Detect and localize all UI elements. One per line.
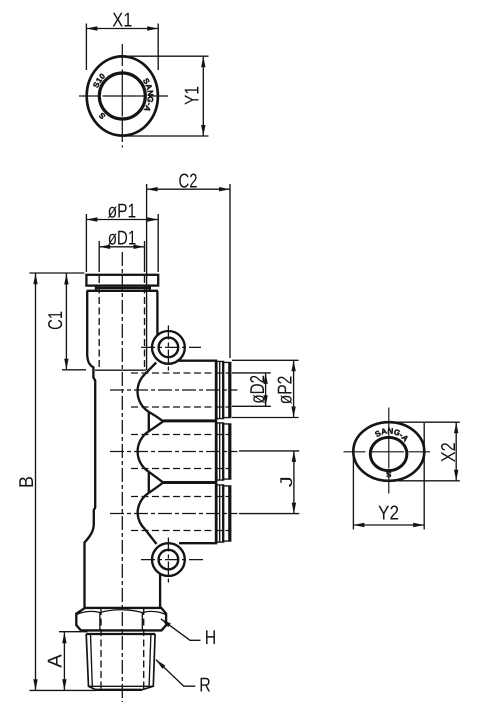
top view inner bore circle xyxy=(99,73,145,119)
main vertical center line xyxy=(121,252,123,702)
body right edge lower xyxy=(159,574,161,607)
bottom mounting hole inner circle xyxy=(159,550,179,570)
port 1 center line xyxy=(110,389,238,391)
port 2 boss arc xyxy=(138,431,149,472)
collet cap neck band xyxy=(96,286,150,290)
top mounting hole inner circle xyxy=(159,338,179,358)
svg-text:A: A xyxy=(45,654,67,668)
port 3 collet rings xyxy=(217,485,231,542)
svg-text:øP2: øP2 xyxy=(275,376,297,405)
body right edge upper xyxy=(156,291,158,335)
top view center lines xyxy=(121,44,123,148)
cusp between port2 and port3 xyxy=(149,472,163,493)
dimension C1 line xyxy=(65,274,67,370)
port2/port3 boundary edge xyxy=(163,481,217,484)
dimension J line xyxy=(293,451,295,514)
dimension øD2 line xyxy=(265,373,267,406)
body left profile xyxy=(85,291,96,608)
collet cap flange xyxy=(86,275,158,286)
bottom mounting hole center lines xyxy=(167,538,169,584)
port 3 hidden bore lines xyxy=(131,497,231,531)
stud hidden bore lines xyxy=(101,608,144,690)
top view outer ring xyxy=(87,56,158,135)
top mounting boss outer circle xyxy=(152,331,185,364)
thread stud outer profile xyxy=(86,634,155,690)
dimension X2 extension lines xyxy=(390,422,460,481)
port 1 collet rings xyxy=(217,361,231,418)
svg-text:S: S xyxy=(385,469,391,478)
thread root lines xyxy=(91,634,151,686)
port1/port2 boundary edge xyxy=(163,419,217,422)
svg-text:C2: C2 xyxy=(179,170,198,192)
dimension øP1 line xyxy=(86,219,158,221)
port 2 right edge xyxy=(215,422,218,482)
leader H arrow xyxy=(161,619,171,627)
dimension C2 extension lines xyxy=(147,184,230,370)
body top edge xyxy=(87,290,158,292)
thread chamfer line xyxy=(89,685,154,687)
dimension C1 bottom tick xyxy=(62,369,86,371)
dimension øP2 extension lines xyxy=(232,360,299,417)
leader R line xyxy=(156,660,195,687)
svg-text:J: J xyxy=(277,476,296,487)
dimension A line xyxy=(63,632,65,690)
svg-text:øD1: øD1 xyxy=(108,228,137,250)
dimension Y2 extension lines xyxy=(353,423,424,530)
dimension Y2 line xyxy=(353,524,424,526)
port 2 hidden bore lines xyxy=(131,435,231,469)
dimension øD1 extension lines xyxy=(99,241,144,272)
port 2 collet rings xyxy=(217,423,231,480)
svg-text:B: B xyxy=(16,476,38,488)
port 3 boss arc xyxy=(138,493,149,529)
port 3 center line xyxy=(110,513,238,515)
side view outer ellipse xyxy=(353,422,424,481)
internal bore shoulder xyxy=(95,369,146,371)
transition diagonal from top boss xyxy=(145,363,156,375)
thread stud bottom edge xyxy=(96,689,142,691)
svg-text:X1: X1 xyxy=(112,10,132,32)
cusp between port1 and port2 xyxy=(149,412,163,431)
port 1 hidden bore lines xyxy=(131,373,231,407)
dimension X1 extension lines xyxy=(86,24,158,71)
thread stud top edge xyxy=(86,633,155,635)
leader R arrow xyxy=(156,660,166,669)
svg-text:Y1: Y1 xyxy=(182,86,204,105)
dimension øP1 extension lines xyxy=(86,214,158,272)
port 2 center line xyxy=(110,451,238,453)
dimension Y1 line xyxy=(202,56,204,136)
dimension J extension lines xyxy=(239,451,299,514)
svg-text:SANG-A: SANG-A xyxy=(141,77,155,114)
side view center lines xyxy=(388,408,390,498)
internal bore dashed lines xyxy=(99,276,144,370)
svg-text:Y2: Y2 xyxy=(378,503,399,525)
port 1 boss arc xyxy=(138,374,149,412)
shared top extension line (B / C1) xyxy=(30,272,85,274)
port 1 right edge xyxy=(215,361,218,420)
bottom mounting boss outer circle xyxy=(152,543,185,576)
dimension A top extension xyxy=(59,631,88,633)
dimension X2 line xyxy=(455,422,457,481)
top mounting hole center lines xyxy=(167,326,169,372)
port 1 top edge xyxy=(177,360,217,362)
dimension C2 line xyxy=(147,188,230,190)
port 3 right edge xyxy=(215,483,218,543)
side view inner bore xyxy=(370,437,407,470)
svg-text:øP1: øP1 xyxy=(108,200,137,222)
dimension øD1 line xyxy=(99,246,144,248)
dimension Y1 extension lines xyxy=(124,56,209,136)
svg-text:H: H xyxy=(205,627,217,649)
transition diagonal to bottom boss xyxy=(145,529,157,544)
port 3 bottom edge xyxy=(179,542,217,544)
dimension B line xyxy=(35,273,37,690)
svg-text:X2: X2 xyxy=(438,442,460,462)
leader H line xyxy=(161,619,201,641)
hex chamfer arcs xyxy=(77,610,166,615)
hex nut outline xyxy=(76,608,166,631)
dimension øP2 line xyxy=(293,360,295,417)
dimension øD2 extension lines xyxy=(232,373,271,406)
svg-text:øD2: øD2 xyxy=(247,375,269,404)
bottom reference line (A/B) xyxy=(30,689,97,691)
hex facet lines xyxy=(100,612,142,630)
dimension X1 line xyxy=(86,28,158,30)
svg-text:C1: C1 xyxy=(45,311,67,330)
svg-text:R: R xyxy=(199,674,211,696)
